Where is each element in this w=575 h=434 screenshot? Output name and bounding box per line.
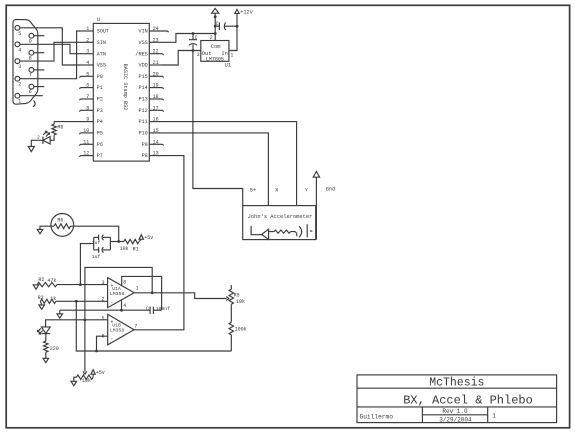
resistor 220 [44, 334, 59, 359]
LED D1 [43, 131, 50, 144]
svg-text:47k: 47k [47, 278, 56, 284]
svg-text:SOUT: SOUT [97, 29, 109, 35]
svg-text:4: 4 [123, 303, 126, 309]
svg-text:P5: P5 [97, 131, 103, 137]
wire pin2 down to rail2 [76, 301, 231, 351]
svg-text:7: 7 [134, 323, 137, 329]
potentiometer 10k [74, 375, 93, 384]
svg-text:C: C [146, 306, 149, 312]
wire R2 to U1A pin3 [57, 284, 108, 286]
svg-text:-: - [110, 336, 113, 342]
potentiometer R5 10k [229, 285, 245, 305]
wire feedback loop / wiper line [85, 267, 152, 371]
ground (R2) [33, 285, 39, 289]
svg-text:1: 1 [492, 412, 496, 419]
junction pin4-rail [120, 309, 123, 312]
svg-text:LM358: LM358 [110, 327, 125, 333]
svg-text:3: 3 [18, 64, 21, 70]
svg-text:R2: R2 [38, 277, 44, 283]
svg-text:R1: R1 [133, 246, 139, 252]
wire BS2 P8 pin13 to U1B output [134, 156, 184, 330]
svg-text:SIN: SIN [97, 40, 106, 46]
resistor R2 47k [37, 277, 57, 287]
svg-text:1k: 1k [50, 296, 56, 302]
svg-text:U1: U1 [225, 63, 231, 69]
svg-text:1uf: 1uf [92, 254, 101, 260]
node label Y [305, 187, 309, 193]
supply +5v (R1) [139, 235, 153, 242]
svg-text:3: 3 [197, 52, 200, 58]
capacitor C (input) [215, 21, 237, 30]
op-amp U1A LM358 [101, 278, 138, 309]
svg-text:P9: P9 [142, 142, 148, 148]
BS2 pin names [97, 29, 148, 160]
junction U1A pin2 net [75, 300, 78, 303]
ground (R6) [37, 229, 43, 233]
junction caps-to-pin3 [79, 283, 82, 286]
svg-text:P14: P14 [138, 85, 147, 91]
resistor 100k [229, 304, 247, 351]
resistor R1 10k [119, 239, 139, 252]
junction Out node [192, 49, 195, 52]
junction +12v cap node [236, 25, 239, 28]
svg-text:100nf: 100nf [156, 306, 171, 312]
svg-text:3/29/2004: 3/29/2004 [439, 416, 472, 423]
svg-text:P11: P11 [138, 119, 147, 125]
svg-text:C: C [195, 35, 198, 41]
svg-text:1: 1 [136, 286, 139, 292]
wire +5 rail from regulator to accelerometer [193, 51, 243, 206]
svg-text:1uf: 1uf [92, 240, 101, 246]
title text McThesis [429, 376, 484, 389]
node label 5+ [250, 187, 256, 193]
ground (220) [43, 358, 49, 362]
BS2 right pin stubs [149, 31, 167, 156]
junction pin6-rail2 [95, 350, 98, 353]
regulator U1 LM7805 [197, 35, 234, 69]
accelerometer sensor squiggle [251, 224, 312, 239]
op-amp U1B LM358 [101, 314, 137, 345]
svg-text:John's Accelerometer: John's Accelerometer [248, 214, 313, 220]
svg-text:P0: P0 [97, 74, 103, 80]
wire R3 to U1A pin2 [56, 300, 108, 302]
svg-text:Com: Com [211, 44, 221, 50]
junction U1A output feedback [151, 291, 154, 294]
connector J1 pin circles [15, 25, 34, 98]
capacitor C (output filter) [189, 34, 198, 51]
svg-text:VIN: VIN [138, 29, 147, 35]
svg-text:P15: P15 [138, 74, 147, 80]
ground (R3) [39, 301, 45, 309]
title text Rev 1.0 [442, 408, 468, 415]
title block frame [357, 375, 557, 423]
svg-text:/RES: /RES [135, 51, 147, 57]
svg-text:+5v: +5v [144, 235, 153, 241]
svg-text:P6: P6 [97, 142, 103, 148]
ground (above regulator) [212, 8, 219, 40]
capacitor C1 100nf [146, 306, 170, 314]
svg-text:8: 8 [123, 279, 126, 285]
title text BX, Accel & Phlebo [403, 394, 533, 408]
svg-text:6: 6 [29, 89, 32, 95]
IC U BASIC Stamp BS2 body [93, 17, 149, 161]
svg-text:5+: 5+ [250, 187, 256, 193]
svg-text:+12v: +12v [240, 9, 253, 15]
svg-text:+5v: +5v [96, 370, 105, 376]
ground rail [60, 310, 150, 314]
junction loop to U1B pin5 [84, 319, 87, 322]
node label X [275, 187, 279, 193]
svg-text:LM358: LM358 [110, 291, 125, 297]
svg-text:R5: R5 [234, 292, 240, 298]
svg-text:10k: 10k [120, 246, 129, 252]
BS2 pin numbers [83, 26, 158, 157]
wire R6 right to node [74, 226, 119, 241]
svg-text:P12: P12 [138, 108, 147, 114]
svg-text:2: 2 [210, 35, 213, 41]
connector J1 unconnected pin stubs [20, 36, 45, 96]
svg-text:BASIC Stamp BS2: BASIC Stamp BS2 [122, 64, 128, 111]
wire BS2 VDD pin21 to regulator Out [163, 51, 201, 66]
resistor R8 [52, 122, 64, 135]
svg-text:McThesis: McThesis [429, 376, 484, 389]
junction Com node [214, 25, 217, 28]
capacitor C 1uf (pair) [92, 235, 111, 260]
wire U1B pin5 row [46, 320, 108, 327]
title text sheet 1 [492, 412, 496, 419]
svg-text:C: C [216, 21, 219, 27]
svg-text:P8: P8 [142, 153, 148, 159]
svg-text:8: 8 [29, 55, 32, 61]
svg-text:P1: P1 [97, 85, 103, 91]
BS2 left no-connect ticks [79, 76, 80, 157]
svg-text:U: U [97, 17, 100, 23]
svg-text:100k: 100k [235, 327, 247, 333]
svg-text:P7: P7 [97, 153, 103, 159]
BS2 right no-connect ticks [163, 31, 169, 146]
accelerometer module box [243, 206, 316, 240]
svg-text:10k: 10k [236, 299, 245, 305]
U1A pin4 gnd stub [121, 300, 123, 310]
svg-text:VSS: VSS [138, 40, 147, 46]
svg-text:P13: P13 [138, 97, 147, 103]
svg-text:P3: P3 [97, 108, 103, 114]
svg-text:3: 3 [101, 280, 104, 286]
svg-text:Rev 1.0: Rev 1.0 [442, 408, 468, 415]
svg-text:U1A: U1A [112, 286, 121, 292]
wire BS2 P11 pin16 to accel Y [163, 122, 297, 206]
svg-text:10k: 10k [82, 378, 91, 384]
svg-text:5: 5 [101, 316, 104, 322]
svg-text:R8: R8 [57, 124, 63, 130]
resistor R3 1k [38, 295, 57, 304]
wire BS2 VSS pin23 to regulator Com [163, 34, 216, 43]
svg-text:2: 2 [37, 136, 40, 141]
svg-text:VSS: VSS [97, 63, 106, 69]
wire BS2 P10 pin15 to accel X [163, 133, 269, 206]
svg-text:220: 220 [50, 346, 59, 352]
wire R8 to LED1 [50, 135, 54, 140]
pot2 wiper arrowhead [83, 371, 87, 374]
supply +12v [229, 9, 253, 50]
wire U1A output [134, 293, 226, 299]
wire DB9 pin4 to BS2 ATN [20, 44, 81, 53]
wire BS2 P4 pin9 to R8 [54, 121, 80, 123]
wire DB9 pin3 to BS2 SIN [20, 42, 81, 61]
svg-text:VDD: VDD [138, 63, 147, 69]
wiper arrowhead R5 [226, 297, 229, 301]
supply +5v (pot) [91, 370, 105, 378]
svg-text:P10: P10 [138, 131, 147, 137]
svg-text:Gnd: Gnd [326, 186, 336, 192]
svg-text:2: 2 [101, 297, 104, 303]
svg-text:R6: R6 [57, 217, 63, 223]
wire U1B pin6 [97, 336, 108, 351]
svg-text:ATN: ATN [97, 51, 106, 57]
svg-text:4: 4 [18, 47, 21, 53]
svg-text:1: 1 [230, 53, 233, 59]
U1A pin8 V+ stub to bypass [122, 276, 162, 310]
LED D2 [38, 327, 51, 334]
svg-text:2: 2 [18, 82, 21, 88]
ground (LED1) [28, 146, 34, 151]
title text date [439, 416, 472, 423]
svg-text:5: 5 [18, 31, 21, 37]
connector J1 DB9 shell [13, 19, 38, 106]
svg-text:1: 1 [18, 99, 21, 105]
junction pin23 wire [192, 32, 217, 35]
svg-text:6: 6 [101, 333, 104, 339]
wire LED1 to ground [31, 136, 43, 147]
svg-text:P2: P2 [97, 97, 103, 103]
wire DB9 pin2 to BS2 SOUT [20, 31, 81, 79]
svg-text:Guillermo: Guillermo [360, 414, 394, 421]
BS2 left pin stubs [81, 31, 94, 156]
svg-text:LM7805: LM7805 [206, 56, 224, 62]
title text Guillermo [360, 414, 394, 421]
wire DB9 pin5 to BS2 VSS [20, 28, 81, 65]
ground Gnd (accel) [313, 171, 335, 192]
ground (rail left end) [57, 314, 63, 318]
ground (pot) [71, 381, 77, 385]
junction R6/R1/caps node [117, 240, 120, 243]
svg-text:7: 7 [29, 73, 32, 79]
wire caps left bus down to pin3 [80, 244, 93, 285]
accelerometer ground line [315, 177, 317, 239]
connector J1 pin numbers [18, 31, 32, 105]
svg-text:9: 9 [29, 38, 32, 44]
wire caps to node [110, 241, 118, 243]
wire R6 left to ground [40, 226, 51, 229]
svg-text:R3: R3 [38, 295, 44, 301]
svg-text:P4: P4 [97, 119, 103, 125]
svg-text:BX, Accel & Phlebo: BX, Accel & Phlebo [403, 394, 533, 408]
svg-text:-: - [110, 299, 113, 305]
thermistor R6 [51, 214, 74, 237]
